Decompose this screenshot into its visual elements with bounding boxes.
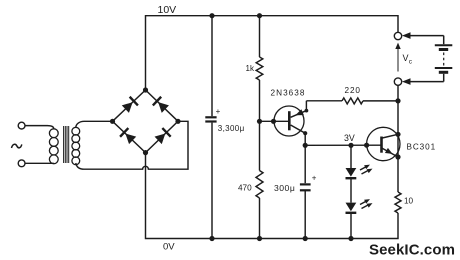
wire: LED2 to 0V rail <box>350 213 352 239</box>
wire: AC bottom terminal to primary <box>25 162 54 164</box>
node: Vc measurement arrow <box>397 47 399 72</box>
svg-text:+: + <box>312 174 317 183</box>
transistor BC301 body <box>367 127 400 160</box>
svg-text:c: c <box>409 59 413 66</box>
wire: Vc lower terminal down through BC301 to 10 ohm <box>397 85 399 192</box>
terminal: Vc top <box>394 32 401 39</box>
resistor 1k <box>256 57 263 80</box>
wire: 1k-470 branch top <box>259 16 261 57</box>
terminal: AC input bottom <box>18 160 25 167</box>
diode D3 (bridge bottom-left) <box>120 128 137 145</box>
svg-text:10V: 10V <box>158 4 177 16</box>
terminal: Vc bottom <box>394 78 401 85</box>
svg-text:10: 10 <box>404 197 414 206</box>
wire: 0V bottom rail <box>146 153 399 239</box>
svg-text:+: + <box>216 107 221 116</box>
terminal: AC input top <box>18 122 25 129</box>
wire: battery top lead with arrow to Vc top terminal <box>408 35 444 37</box>
transistor 2N3638 collector <box>291 125 306 145</box>
wire: AC top terminal to primary <box>25 126 54 129</box>
svg-text:SeekIC.com: SeekIC.com <box>369 242 455 259</box>
transformer T1 core <box>64 126 69 163</box>
transistor BC301 emitter (NPN arrow out) <box>382 148 398 157</box>
wire: LED1 to LED2 <box>350 178 352 202</box>
resistor 220 <box>342 98 363 104</box>
battery B1 dashed middle <box>443 53 445 66</box>
wire: base of 2N3638 <box>260 120 290 122</box>
svg-text:V: V <box>403 53 409 63</box>
svg-text:3V: 3V <box>344 133 355 143</box>
svg-text:470: 470 <box>238 184 252 193</box>
wire: bridge diamond edges <box>113 90 179 153</box>
transistor BC301 collector <box>382 134 398 138</box>
resistor 10 <box>395 192 401 213</box>
svg-text:220: 220 <box>345 86 361 95</box>
svg-text:BC301: BC301 <box>407 143 437 152</box>
transformer T1 primary winding <box>49 129 58 164</box>
wire: 300u capacitor to 0V rail <box>304 190 306 238</box>
wire: secondary top to bridge left node <box>76 121 113 127</box>
wire: 220 to Vc terminal line <box>363 100 398 102</box>
node: AC tilde symbol <box>12 144 22 148</box>
wire: 1k to 470 (base node) <box>259 80 261 171</box>
svg-text:1k: 1k <box>246 64 255 73</box>
svg-text:0V: 0V <box>163 242 175 253</box>
wire: collector node down to 300u capacitor <box>304 145 306 183</box>
transistor 2N3638 body <box>274 106 304 136</box>
diode D4 (bridge bottom-right) <box>154 128 171 145</box>
wire: collector node to BC301 base <box>305 144 381 146</box>
LED D6 emission arrows <box>360 197 371 204</box>
battery B1 cell 2 <box>435 67 453 69</box>
capacitor 3,300u plates <box>205 116 216 118</box>
LED D5 emission arrows <box>360 163 371 170</box>
battery B1 cell 1 <box>435 44 453 46</box>
svg-text:3,300μ: 3,300μ <box>218 124 245 133</box>
wire: secondary bottom to bridge right node (hop over centre wire) <box>76 121 188 169</box>
svg-text:2N3638: 2N3638 <box>271 89 306 98</box>
resistor 470 <box>256 171 263 199</box>
transformer T1 secondary winding <box>72 127 80 164</box>
diode D1 (bridge top-left) <box>121 97 138 114</box>
diode D2 (bridge top-right) <box>153 97 170 114</box>
wire: 3V node down to LED1 <box>350 145 352 168</box>
wire: 470 to 0V rail <box>259 198 261 239</box>
capacitor 300u plates <box>300 183 311 185</box>
wire: battery bottom lead with arrow to Vc bottom terminal <box>443 74 445 82</box>
wire: reservoir capacitor branch <box>211 16 213 117</box>
LED D5 <box>346 168 357 177</box>
wire: 2N3638 emitter to 220 <box>306 100 342 102</box>
transistor 2N3638 emitter (arrow into base bar, PNP) <box>291 101 307 118</box>
LED D6 <box>346 203 357 212</box>
svg-text:300μ: 300μ <box>274 183 295 193</box>
wire: +10V top rail <box>146 16 399 90</box>
